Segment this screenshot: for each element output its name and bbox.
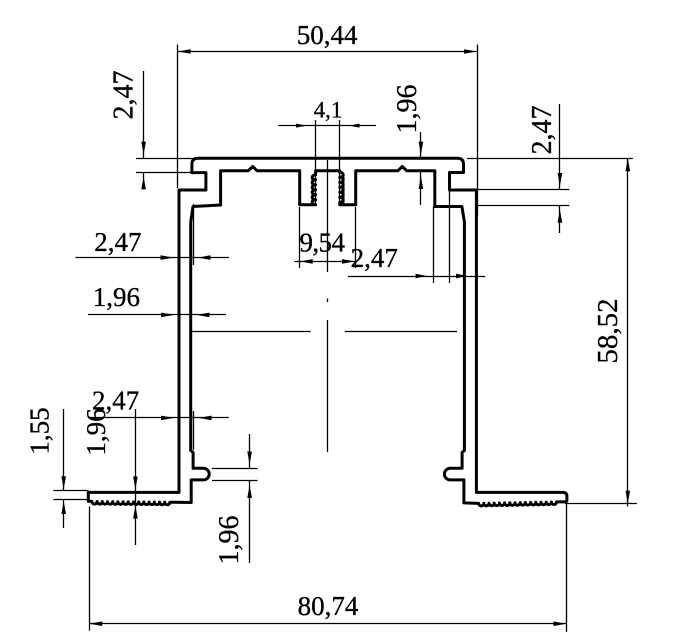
dimension 58,52 right — [467, 158, 637, 506]
dimension 2,47 mid-left — [76, 227, 230, 260]
dimension 2,47 mid-right — [348, 191, 485, 284]
profile outline — [88, 158, 567, 506]
dimension 1,96 top — [392, 85, 423, 206]
svg-text:2,47: 2,47 — [109, 71, 140, 120]
dimension 80,74 bottom — [89, 504, 566, 632]
dimension 9,54 center — [295, 207, 356, 268]
screw channel serration shading right — [342, 176, 344, 205]
svg-text:9,54: 9,54 — [300, 227, 346, 257]
dimension 50,44 top — [178, 20, 478, 216]
svg-text:1,96: 1,96 — [93, 282, 140, 312]
dimension 1,55 bottom-left tip — [25, 407, 89, 528]
dimension 2,47 top-right — [478, 104, 569, 233]
svg-text:1,96: 1,96 — [81, 408, 111, 455]
dimension 1,96 bottom-left foot — [81, 408, 138, 545]
dimension 2,47 top-left — [109, 71, 198, 190]
wall ext line left mid — [193, 204, 195, 265]
svg-text:1,55: 1,55 — [25, 407, 55, 454]
svg-text:58,52: 58,52 — [592, 298, 624, 363]
svg-text:2,47: 2,47 — [527, 106, 558, 155]
wall ext line left bottom — [193, 411, 195, 450]
dimension 2,47 bottom-left — [88, 385, 229, 420]
svg-text:1,96: 1,96 — [392, 85, 423, 134]
vertical centerline — [327, 160, 329, 272]
svg-text:2,47: 2,47 — [351, 243, 398, 273]
svg-text:50,44: 50,44 — [297, 20, 358, 50]
svg-text:80,74: 80,74 — [298, 591, 359, 621]
svg-text:1,96: 1,96 — [214, 516, 245, 565]
dimension 1,96 nub bottom-center — [212, 434, 258, 565]
svg-text:2,47: 2,47 — [94, 227, 141, 257]
dimension 1,96 mid-left — [88, 282, 226, 317]
dimension 4,1 top center — [278, 98, 376, 204]
horizontal centerline — [191, 331, 311, 333]
screw channel serration shading left — [311, 176, 313, 205]
svg-text:4,1: 4,1 — [314, 98, 343, 123]
